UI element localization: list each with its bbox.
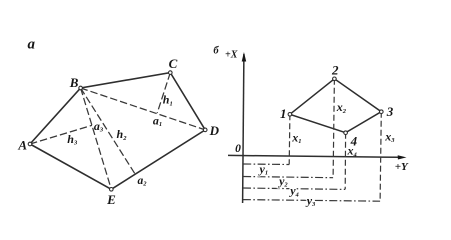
svg-text:B: B	[69, 75, 79, 90]
svg-text:D: D	[209, 123, 220, 138]
svg-text:б: б	[213, 46, 219, 57]
svg-text:A: A	[17, 138, 27, 153]
svg-text:C: C	[169, 56, 178, 71]
svg-text:a: a	[27, 37, 35, 53]
svg-text:1: 1	[280, 106, 287, 121]
svg-text:+Y: +Y	[395, 161, 409, 173]
svg-text:2: 2	[331, 63, 339, 78]
svg-text:3: 3	[386, 104, 394, 119]
svg-text:0: 0	[235, 143, 241, 155]
svg-text:+X: +X	[225, 50, 238, 61]
svg-text:E: E	[106, 192, 116, 207]
